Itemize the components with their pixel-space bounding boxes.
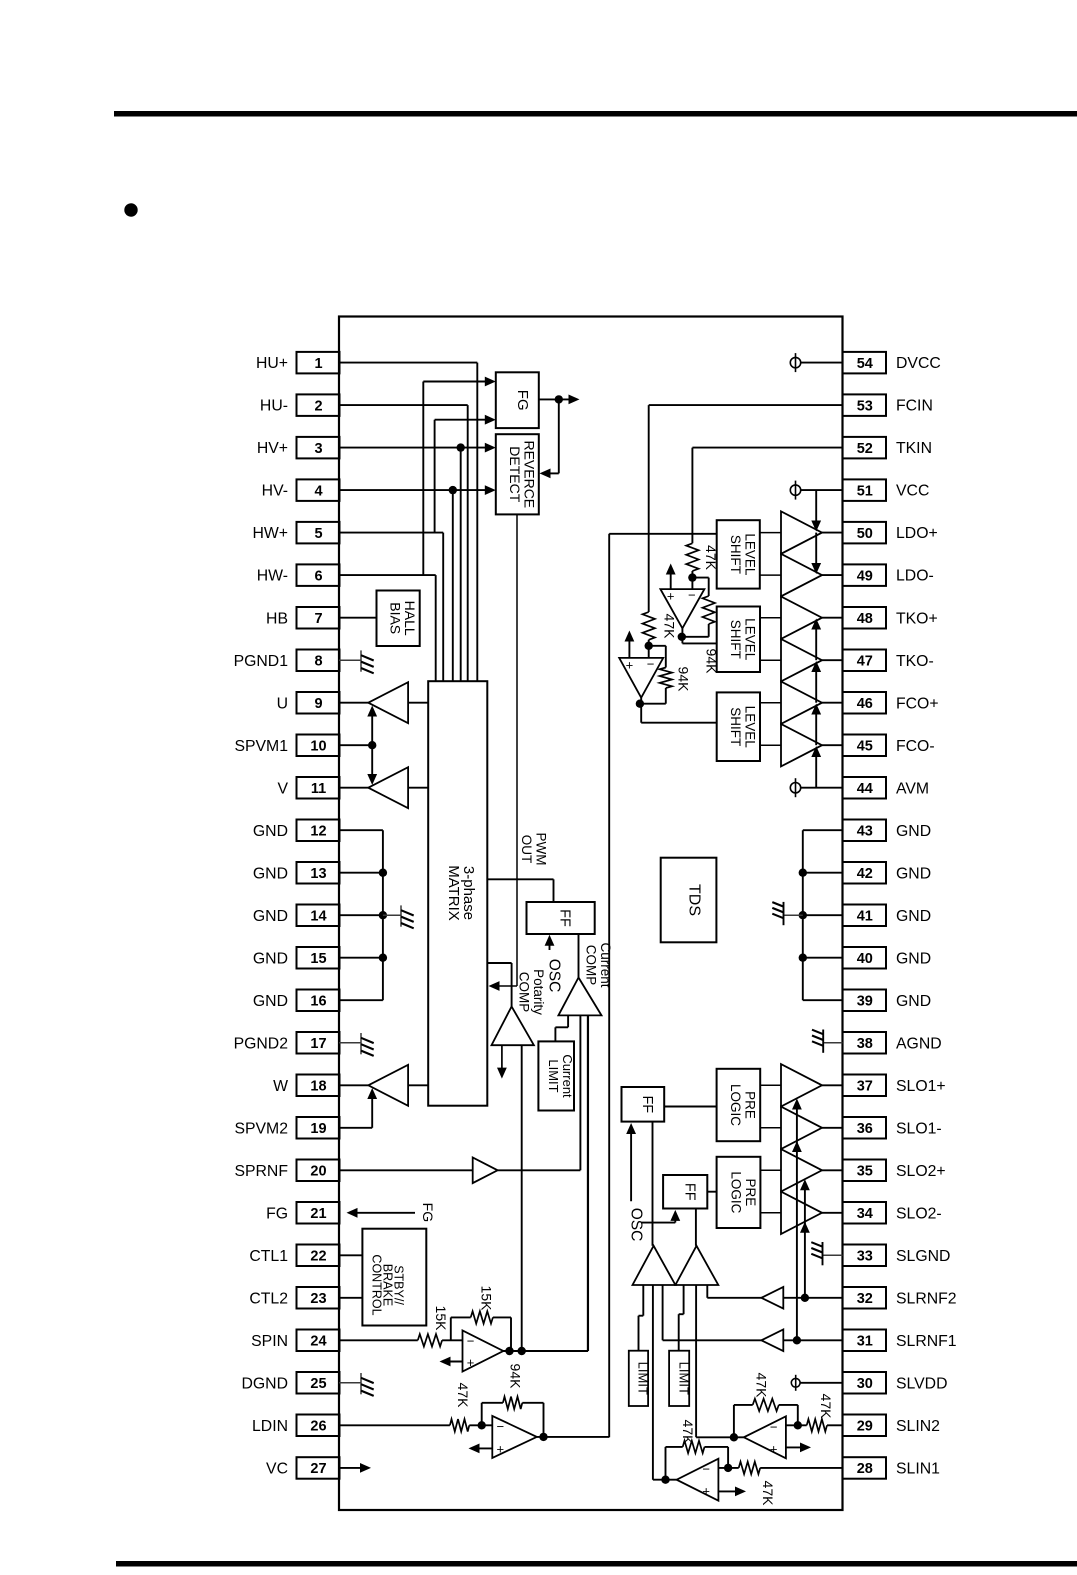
pin 4 HV- [297, 479, 340, 501]
svg-text:HU+: HU+ [256, 355, 288, 372]
svg-text:3: 3 [314, 441, 322, 457]
wire SLIN1 (pin 28) [760, 1467, 842, 1469]
svg-text:GND: GND [896, 908, 931, 925]
ref arrow (LDIN op-amp +) [474, 1447, 492, 1449]
standby block STBY/BRAKE CONTROL [362, 1229, 426, 1326]
wire LDIN amp output riser to LEVEL SHIFT 1 [608, 534, 610, 1438]
svg-text:SLO2-: SLO2- [896, 1205, 942, 1222]
svg-text:FF: FF [681, 1183, 697, 1201]
svg-text:HW+: HW+ [252, 525, 288, 542]
power symbol AVM (pin 44) [790, 783, 800, 793]
svg-text:+: + [497, 1441, 505, 1456]
wire FCIN (pin 53) to 47K [649, 404, 843, 406]
pin 9 U [297, 692, 340, 714]
svg-text:37: 37 [857, 1079, 873, 1095]
svg-text:FF: FF [639, 1095, 655, 1113]
svg-text:SPVM1: SPVM1 [234, 738, 288, 755]
svg-text:GND: GND [253, 908, 288, 925]
limit block 2 LIMIT [669, 1351, 689, 1406]
wire LDIN output [537, 1436, 609, 1438]
svg-text:W: W [273, 1078, 288, 1095]
wire left FF to osc triangle A [652, 1122, 654, 1246]
svg-text:47: 47 [857, 653, 873, 669]
pre logic block 1 [717, 1069, 761, 1141]
svg-text:13: 13 [310, 866, 326, 882]
svg-text:SLO1+: SLO1+ [896, 1078, 946, 1095]
svg-text:20: 20 [310, 1164, 326, 1180]
wire LDIN (pin 26) [339, 1424, 450, 1426]
pin 35 SLO2+ [843, 1160, 887, 1182]
pin 36 SLO1- [843, 1117, 887, 1139]
svg-text:FCO+: FCO+ [896, 695, 939, 712]
op-amp FCIN comparator [619, 658, 663, 698]
pin 51 VCC [843, 479, 887, 501]
amplifier U (pin 9) [339, 702, 368, 704]
svg-text:SPRNF: SPRNF [234, 1163, 288, 1180]
3-phase MATRIX block [428, 681, 487, 1105]
driver triangle pin 36 row [781, 1107, 822, 1150]
svg-text:VCC: VCC [896, 483, 929, 500]
svg-text:CTL1: CTL1 [249, 1248, 288, 1265]
svg-text:14: 14 [310, 908, 326, 924]
svg-text:GND: GND [896, 865, 931, 882]
svg-text:CTL2: CTL2 [249, 1290, 288, 1307]
driver triangle pin 34 row [781, 1192, 822, 1235]
svg-text:OSC: OSC [628, 1208, 645, 1242]
power symbol DVCC (pin 54) [790, 357, 800, 367]
wire CTL1 (pin 22) [339, 1254, 362, 1256]
svg-text:50: 50 [857, 526, 873, 542]
pin 38 AGND [843, 1032, 887, 1054]
svg-text:2: 2 [314, 398, 322, 414]
resistor 47K (SLIN2 feedback) [797, 1405, 799, 1425]
svg-text:47K: 47K [662, 614, 678, 640]
svg-text:15K: 15K [479, 1286, 495, 1312]
pin 15 GND [297, 947, 340, 969]
comparator Potarity COMP [492, 1007, 534, 1046]
svg-text:MATRIX: MATRIX [445, 865, 462, 921]
svg-text:94K: 94K [508, 1364, 524, 1390]
vcc ref arrow (FCIN op-amp) [628, 636, 630, 658]
wire pin6 HW- to matrix and FG [339, 574, 436, 576]
svg-text:39: 39 [857, 993, 873, 1009]
wire SLIN1 output riser to osc triangle A [653, 1479, 677, 1481]
svg-text:AGND: AGND [896, 1035, 942, 1052]
svg-text:−: − [702, 1462, 710, 1477]
svg-text:9: 9 [314, 696, 322, 712]
svg-text:16: 16 [310, 993, 326, 1009]
svg-text:LIMIT: LIMIT [636, 1362, 651, 1395]
svg-text:−: − [688, 588, 696, 603]
power symbol SLVDD (pin 30) [791, 1378, 800, 1387]
svg-text:36: 36 [857, 1121, 873, 1137]
wire Current COMP left input to Current LIMIT [567, 1015, 569, 1027]
osc triangle B [675, 1246, 718, 1285]
wire VCC supply arrows to LDO drivers [815, 490, 817, 527]
pin 21 FG [297, 1202, 340, 1224]
IC body outline [339, 317, 843, 1511]
ground SLGND (pin 33) [823, 1254, 843, 1256]
wire SPIN output to comparators [503, 1350, 588, 1352]
reverse detect output to matrix [516, 514, 518, 986]
svg-text:6: 6 [314, 568, 322, 584]
svg-text:15K: 15K [433, 1306, 449, 1332]
wire VC (pin 27) input arrow [339, 1467, 365, 1469]
svg-text:GND: GND [253, 823, 288, 840]
svg-text:51: 51 [857, 483, 873, 499]
pin 54 DVCC [843, 352, 887, 374]
svg-text:18: 18 [310, 1079, 326, 1095]
svg-text:21: 21 [310, 1206, 326, 1222]
svg-text:35: 35 [857, 1164, 873, 1180]
svg-text:−: − [770, 1419, 778, 1434]
svg-text:38: 38 [857, 1036, 873, 1052]
svg-text:U: U [277, 695, 288, 712]
svg-text:V: V [277, 780, 288, 797]
svg-text:TKO+: TKO+ [896, 610, 938, 627]
svg-text:19: 19 [310, 1121, 326, 1137]
top rule [114, 111, 1077, 117]
svg-text:47K: 47K [680, 1420, 696, 1446]
pin 3 HV+ [297, 437, 340, 459]
pin 53 FCIN [843, 394, 887, 416]
svg-text:8: 8 [314, 653, 322, 669]
svg-text:5: 5 [314, 526, 322, 542]
hall bias block [377, 591, 420, 647]
svg-text:24: 24 [310, 1334, 326, 1350]
pin 47 TKO- [843, 650, 887, 672]
reverse-detect block REVERCE DETECT [496, 434, 539, 514]
svg-text:LEVEL: LEVEL [743, 706, 758, 749]
svg-text:10: 10 [310, 738, 326, 754]
svg-text:FF: FF [557, 909, 573, 927]
wire OSC to right FF [641, 1222, 675, 1224]
svg-text:31: 31 [857, 1334, 873, 1350]
wire triangle A to LIMIT 1 [642, 1285, 644, 1316]
amplifier V (pin 11) [339, 787, 368, 789]
svg-text:Current: Current [560, 1054, 575, 1098]
pin 43 GND [843, 820, 887, 842]
svg-text:PGND2: PGND2 [234, 1035, 288, 1052]
pin 18 W [297, 1075, 340, 1097]
pin 16 GND [297, 990, 340, 1012]
svg-text:PRE: PRE [743, 1091, 758, 1119]
driver triangle pin 48 row [781, 596, 822, 639]
svg-text:FG: FG [420, 1203, 436, 1222]
svg-text:28: 28 [857, 1461, 873, 1477]
FG block [496, 372, 539, 428]
svg-text:COMP: COMP [583, 945, 598, 986]
wire matrix to Potarity COMP [487, 962, 511, 964]
svg-text:−: − [647, 656, 655, 671]
svg-text:41: 41 [857, 908, 873, 924]
svg-text:DETECT: DETECT [507, 446, 523, 502]
pin 8 PGND1 [297, 650, 340, 672]
wire PWM out from matrix to FF [487, 878, 553, 880]
svg-text:LDO+: LDO+ [896, 525, 938, 542]
pin 25 DGND [297, 1372, 340, 1394]
wire SLRNF1 riser with arrows into SLO drivers [796, 1104, 798, 1340]
level shift block 2 [717, 607, 760, 673]
svg-text:12: 12 [310, 823, 326, 839]
svg-text:FCO-: FCO- [896, 738, 935, 755]
ground AGND (pin 38) [823, 1042, 842, 1044]
wire pin3 HV+ to reverse detect and matrix [339, 447, 490, 449]
svg-text:52: 52 [857, 441, 873, 457]
wire Potarity COMP input riser from SPIN amp [521, 1045, 523, 1351]
node SPVM1 (pin 10) double arrow to U and V amps [339, 744, 372, 746]
pin 31 SLRNF1 [843, 1330, 887, 1352]
wires level shift outputs to drivers [760, 532, 781, 534]
flip-flop FF (right, SLO) [663, 1175, 707, 1209]
svg-text:SLVDD: SLVDD [896, 1375, 948, 1392]
resistor 94K (FCIN feedback) [649, 645, 666, 647]
svg-text:SLIN1: SLIN1 [896, 1461, 940, 1478]
wire SLIN2 output riser to osc triangle B [696, 1436, 744, 1438]
svg-text:LEVEL: LEVEL [742, 533, 757, 576]
svg-text:94K: 94K [676, 667, 692, 693]
svg-text:HV+: HV+ [257, 440, 288, 457]
ground PGND2 [339, 1042, 361, 1044]
svg-text:HV-: HV- [262, 483, 288, 500]
pin 19 SPVM2 [297, 1117, 340, 1139]
svg-text:COMP: COMP [516, 972, 531, 1013]
pin 10 SPVM1 [297, 735, 340, 757]
pin 52 TKIN [843, 437, 887, 459]
svg-text:4: 4 [314, 483, 322, 499]
level shift block 1 [717, 520, 760, 588]
ground PGND1 [339, 659, 361, 661]
svg-text:SPVM2: SPVM2 [234, 1120, 288, 1137]
level shift block 3 [717, 692, 760, 761]
power symbol VCC (pin 51) [790, 485, 800, 495]
pin 33 SLGND [843, 1245, 887, 1267]
pin 14 GND [297, 905, 340, 927]
svg-text:+: + [626, 657, 634, 672]
comparator Current COMP [558, 978, 601, 1016]
pin 22 CTL1 [297, 1245, 340, 1267]
svg-text:SHIFT: SHIFT [728, 535, 743, 574]
svg-text:LOGIC: LOGIC [728, 1171, 743, 1213]
resistor 15K (SPIN series) [418, 1334, 442, 1346]
resistor 47K (FCIN input) [643, 612, 655, 640]
svg-text:+: + [770, 1441, 778, 1456]
svg-text:GND: GND [896, 993, 931, 1010]
svg-text:GND: GND [253, 993, 288, 1010]
flip-flop FF (left, SLO) [622, 1087, 665, 1122]
svg-text:GND: GND [253, 950, 288, 967]
svg-text:GND: GND [253, 865, 288, 882]
svg-text:27: 27 [310, 1461, 326, 1477]
amplifier W (pin 18) [339, 1084, 368, 1086]
svg-text:SHIFT: SHIFT [728, 620, 743, 659]
svg-text:VC: VC [266, 1461, 288, 1478]
driver triangle pin 46 row [781, 681, 822, 724]
svg-text:33: 33 [857, 1249, 873, 1265]
svg-text:LOGIC: LOGIC [728, 1084, 743, 1126]
wire FG output to pin 21 [352, 1212, 415, 1214]
svg-text:OSC: OSC [545, 959, 562, 993]
wire FCIN op-amp out to LEVEL SHIFT 3 [640, 698, 642, 723]
ground bus pins 43-39 [803, 829, 843, 831]
pin 44 AVM [843, 777, 887, 799]
svg-text:11: 11 [311, 781, 326, 797]
pin 48 TKO+ [843, 607, 887, 629]
pin 26 LDIN [297, 1415, 340, 1437]
svg-text:53: 53 [857, 398, 873, 414]
svg-text:PRE: PRE [743, 1179, 758, 1207]
wire OSC to left FF [630, 1129, 632, 1202]
svg-text:FCIN: FCIN [896, 398, 933, 415]
svg-text:FG: FG [514, 390, 531, 411]
svg-text:49: 49 [857, 568, 873, 584]
svg-text:+: + [702, 1484, 710, 1499]
pin 23 CTL2 [297, 1287, 340, 1309]
pin 20 SPRNF [297, 1160, 340, 1182]
pin 29 SLIN2 [843, 1415, 887, 1437]
svg-text:HW-: HW- [257, 568, 288, 585]
svg-text:SLGND: SLGND [896, 1248, 950, 1265]
flip-flop FF (PWM) [527, 902, 595, 934]
pin 30 SLVDD [843, 1372, 887, 1394]
svg-text:LDO-: LDO- [896, 568, 934, 585]
svg-text:TDS: TDS [686, 884, 703, 916]
pre logic block 2 [717, 1157, 761, 1228]
wire SLRNF2 riser with arrows into SLO drivers [804, 1185, 806, 1298]
pin 7 HB [297, 607, 340, 629]
wire pin5 HW+ to matrix and FG [339, 532, 443, 534]
node OSC label into PWM FF [549, 941, 551, 951]
wires pre logic outputs to SLO drivers [760, 1084, 781, 1086]
svg-text:44: 44 [857, 781, 873, 797]
pin 13 GND [297, 862, 340, 884]
svg-text:15: 15 [310, 951, 326, 967]
pin 40 GND [843, 947, 887, 969]
svg-text:43: 43 [857, 823, 873, 839]
driver triangle pin 35 row [781, 1149, 822, 1192]
pin 28 SLIN1 [843, 1457, 887, 1479]
pin 17 PGND2 [297, 1032, 340, 1054]
osc triangle A [633, 1246, 676, 1285]
svg-text:+: + [467, 1355, 475, 1370]
svg-text:SPIN: SPIN [251, 1333, 288, 1350]
svg-text:BIAS: BIAS [387, 602, 403, 634]
driver triangle pin 47 row [781, 639, 822, 682]
pin 11 V [297, 777, 340, 799]
svg-text:47K: 47K [754, 1373, 770, 1399]
pin 6 HW- [297, 564, 340, 586]
svg-text:PWM: PWM [533, 833, 548, 866]
pin 24 SPIN [297, 1330, 340, 1352]
wire SPVM2 (pin 19) arrow into W amp [339, 1127, 372, 1129]
buffer SPRNF (pin 20) [339, 1169, 473, 1171]
svg-text:DVCC: DVCC [896, 355, 941, 372]
pin 5 HW+ [297, 522, 340, 544]
svg-text:48: 48 [857, 611, 873, 627]
svg-text:DGND: DGND [241, 1375, 288, 1392]
driver triangle pin 37 row [781, 1064, 822, 1107]
pin 12 GND [297, 820, 340, 842]
wire pin7 HB to hall bias [339, 617, 377, 619]
wire right FF to osc triangle B [695, 1209, 697, 1246]
wire CTL2 (pin 23) [339, 1297, 362, 1299]
bullet [124, 203, 137, 216]
wire pin1 HU+ to matrix [339, 362, 477, 364]
resistor 47K (SLIN1 series) [739, 1462, 761, 1474]
wire SPIN (pin 24) [339, 1339, 418, 1341]
pin 27 VC [297, 1457, 340, 1479]
op-amp LDIN [492, 1416, 537, 1458]
svg-text:47K: 47K [760, 1481, 776, 1507]
wire pin4 HV- to reverse detect and matrix [339, 489, 490, 491]
svg-text:CONTROL: CONTROL [369, 1254, 383, 1315]
pin 39 GND [843, 990, 887, 1012]
svg-text:FG: FG [266, 1205, 288, 1222]
wire pin2 HU- to matrix [339, 404, 468, 406]
svg-text:7: 7 [314, 611, 322, 627]
FG output wire with branch to reverse detect [539, 398, 572, 400]
current limit block Current LIMIT [538, 1041, 574, 1110]
svg-text:HU-: HU- [260, 398, 288, 415]
svg-text:TKIN: TKIN [896, 440, 932, 457]
pin 49 LDO- [843, 564, 887, 586]
wire Current COMP right input from SPIN amp output [587, 1015, 589, 1351]
resistor 15K (SPIN feedback) [450, 1317, 452, 1340]
svg-text:LIMIT: LIMIT [676, 1362, 691, 1395]
ground DGND (pin 25) [339, 1382, 361, 1384]
svg-text:−: − [467, 1333, 475, 1348]
svg-text:HB: HB [266, 610, 288, 627]
svg-text:PGND1: PGND1 [234, 653, 289, 670]
svg-text:22: 22 [310, 1249, 326, 1265]
svg-text:SLIN2: SLIN2 [896, 1418, 940, 1435]
svg-text:+: + [667, 589, 675, 604]
svg-text:40: 40 [857, 951, 873, 967]
op-amp SLIN1 [677, 1459, 719, 1501]
svg-text:47K: 47K [818, 1394, 834, 1420]
svg-text:23: 23 [310, 1291, 326, 1307]
resistor 47K (SLIN1 feedback) [727, 1447, 729, 1468]
op-amp SLIN2 [744, 1416, 786, 1458]
svg-text:LIMIT: LIMIT [546, 1059, 561, 1092]
wire Potarity COMP down arrow [501, 1045, 503, 1073]
svg-text:47K: 47K [455, 1383, 471, 1409]
pin 37 SLO1+ [843, 1075, 887, 1097]
wire TKIN op-amp out to LEVEL SHIFT 2 [681, 628, 683, 643]
svg-text:45: 45 [857, 738, 873, 754]
svg-text:42: 42 [857, 866, 873, 882]
resistor 94K (TKIN feedback) [692, 577, 708, 579]
vcc ref arrow (TKIN op-amp) [670, 569, 672, 589]
ground bus pins 12-16 [339, 829, 383, 831]
svg-text:GND: GND [896, 823, 931, 840]
resistor 47K (SLIN2 series) [807, 1419, 827, 1431]
driver triangle pin 45 row [781, 724, 822, 767]
svg-text:−: − [497, 1419, 505, 1434]
svg-text:GND: GND [896, 950, 931, 967]
TDS block [661, 858, 717, 943]
svg-text:1: 1 [314, 356, 322, 372]
svg-text:46: 46 [857, 696, 873, 712]
pin 42 GND [843, 862, 887, 884]
svg-text:17: 17 [310, 1036, 326, 1052]
svg-text:SHIFT: SHIFT [728, 707, 743, 746]
pin 41 GND [843, 905, 887, 927]
pin 45 FCO- [843, 735, 887, 757]
resistor 47K (LDIN series) [450, 1419, 469, 1431]
wire SLIN2 (pin 29) [827, 1424, 843, 1426]
resistor 94K (LDIN feedback) [481, 1403, 483, 1426]
